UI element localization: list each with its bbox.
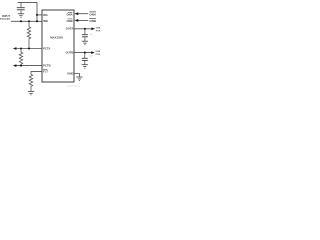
svg-text:TO 5.5V: TO 5.5V: [0, 17, 10, 21]
ground G1 under C1: [18, 14, 24, 17]
svg-text:USB: USB: [96, 51, 100, 53]
ground G4 under C3: [82, 65, 88, 69]
arrow ONB (into IC): [74, 19, 78, 22]
node R1 bottom junction: [28, 47, 30, 49]
svg-text:PCTB: PCTB: [43, 63, 51, 67]
wire OUTA: [74, 28, 92, 30]
svg-text:FLT: FLT: [43, 69, 48, 73]
capacitor C3 (OUTB): [82, 53, 88, 65]
resistor R1 (input to PCTA): [27, 21, 30, 48]
svg-text:GND: GND: [67, 71, 73, 75]
wire FLT to R3: [31, 72, 42, 75]
wire top rail from input corner to bypass cap: [18, 2, 38, 4]
IC U1 MAX1558 body: [42, 10, 74, 82]
svg-text:ONA: ONA: [89, 12, 97, 16]
arrow PCTB (off-page, pointing left): [13, 64, 17, 67]
node input-cap junction: [20, 20, 22, 22]
node R2 bottom junction: [20, 65, 22, 67]
wire OUTB: [74, 52, 91, 54]
node R1 top junction: [28, 20, 30, 22]
ground G5 (IC GND): [76, 77, 82, 81]
wire vertical input riser: [36, 2, 38, 21]
svg-text:OUTB: OUTB: [65, 51, 73, 55]
svg-text:ONB: ONB: [66, 19, 72, 23]
resistor R3 (FLT pulldown): [29, 74, 32, 91]
arrow OUTB (output, pointing right): [91, 51, 95, 54]
wire ONB: [78, 19, 88, 21]
wire GND stub: [74, 74, 79, 77]
svg-text:ONA: ONA: [66, 13, 72, 17]
arrow OUTA (output, pointing right): [91, 27, 95, 30]
svg-text:ONB: ONB: [89, 19, 97, 23]
capacitor C1 (input bypass): [17, 3, 25, 14]
wire input line: [11, 20, 42, 22]
svg-text:PORT: PORT: [96, 54, 100, 56]
node riser junction: [36, 20, 38, 22]
arrow PCTA (off-page, pointing left): [13, 47, 17, 50]
wire PCTA: [16, 48, 42, 50]
svg-text:OUTA: OUTA: [66, 27, 74, 31]
svg-text:PCTA: PCTA: [43, 47, 50, 51]
ground G2 under R3: [28, 92, 34, 96]
ground G3 under C2: [82, 41, 88, 45]
svg-text:PORT: PORT: [96, 30, 100, 32]
resistor R2 (PCTA to PCTB): [19, 49, 22, 66]
svg-text:INB: INB: [43, 19, 48, 23]
wire PCTB: [16, 65, 42, 67]
node INA junction: [36, 14, 38, 16]
node R2 top junction: [20, 47, 22, 49]
node OUTA cap junction: [84, 28, 86, 30]
svg-text:MAX1558: MAX1558: [50, 36, 63, 40]
svg-text:µMAX/TDFN: µMAX/TDFN: [67, 85, 80, 88]
arrow ONA (into IC): [74, 12, 78, 15]
node OUTB cap junction: [84, 52, 86, 54]
wire ONA: [78, 13, 88, 15]
wire INA stub: [37, 14, 42, 16]
capacitor C2 (OUTA): [82, 29, 88, 41]
svg-text:USB: USB: [96, 27, 100, 29]
svg-text:INA: INA: [43, 13, 48, 17]
